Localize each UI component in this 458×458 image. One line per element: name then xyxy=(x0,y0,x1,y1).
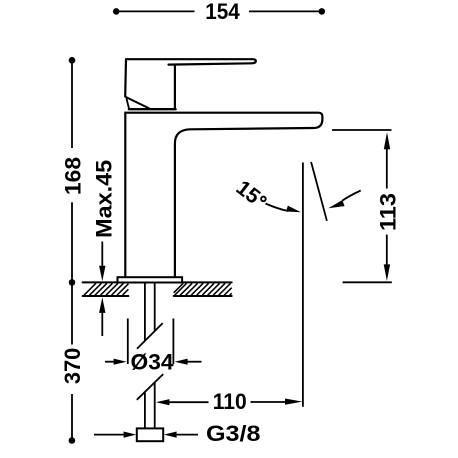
supply pipe lower right line xyxy=(154,382,156,428)
svg-text:Max.45: Max.45 xyxy=(92,160,117,238)
Max.45 upper leader line xyxy=(101,242,103,270)
dimension 370 bottom dot xyxy=(69,437,76,444)
handle column right edge xyxy=(174,65,176,108)
supply pipe upper right line xyxy=(154,282,156,330)
diameter 34 right arrow xyxy=(175,359,202,365)
dimension 110 right arrow xyxy=(251,399,303,405)
dimension 113 top extension line xyxy=(332,129,392,131)
15 degree right leader xyxy=(328,191,360,209)
Max.45 down arrowhead xyxy=(99,266,105,282)
handle left edge xyxy=(124,59,127,96)
water stream axis line xyxy=(302,163,304,407)
dimension 168 line xyxy=(71,60,73,282)
15 degree left leader xyxy=(266,204,302,213)
Max.45 lower leader line xyxy=(101,311,103,336)
svg-text:113: 113 xyxy=(375,193,400,231)
dimension 370 line xyxy=(71,286,73,441)
svg-text:Ø34: Ø34 xyxy=(131,349,175,374)
G3/8 fitting xyxy=(137,428,163,441)
dimension 113 bottom extension line xyxy=(343,281,392,283)
dimension 113 down arrowhead xyxy=(384,264,390,281)
counter hatch right xyxy=(174,283,232,295)
diameter 34 right extension line xyxy=(172,319,174,365)
Max.45 up arrowhead xyxy=(99,297,105,313)
counter bottom line right xyxy=(174,295,232,297)
svg-text:G3/8: G3/8 xyxy=(206,421,261,446)
svg-text:110: 110 xyxy=(213,389,247,414)
counter hatch left xyxy=(84,283,128,295)
dimension 168 top dot xyxy=(69,57,76,64)
G3/8 right arrow xyxy=(164,432,198,438)
dimension 113 up arrowhead xyxy=(384,132,390,149)
15 degree label degree ring xyxy=(261,197,266,202)
counter bottom line left xyxy=(83,295,129,297)
base flange xyxy=(118,277,183,282)
dimension 113 line lower xyxy=(386,235,388,266)
counter top line right xyxy=(182,281,231,283)
faucet body and spout outline xyxy=(125,113,322,277)
dimension 154 left dot xyxy=(113,8,120,15)
counter top line left xyxy=(83,281,118,283)
dimension 113 line upper xyxy=(386,148,388,189)
svg-text:154: 154 xyxy=(205,0,240,24)
svg-text:370: 370 xyxy=(60,348,85,385)
handle base bottom line xyxy=(129,108,176,110)
supply pipe upper left line xyxy=(144,282,146,340)
pipe break slash upper xyxy=(137,323,163,349)
pipe break slash lower xyxy=(137,374,163,400)
dimension 110 left arrow xyxy=(156,399,209,405)
diameter 34 left arrow xyxy=(105,359,127,365)
diameter 34 left extension line xyxy=(127,319,129,365)
dimension 154 right dot xyxy=(319,8,326,15)
handle inner wedge line xyxy=(127,99,130,109)
handle chamfer xyxy=(125,97,149,109)
handle lever xyxy=(126,59,256,64)
dimension 168 bottom dot xyxy=(69,279,76,286)
G3/8 left arrow xyxy=(94,432,136,438)
15 degree slanted line xyxy=(311,162,327,221)
svg-text:168: 168 xyxy=(60,157,85,195)
dimension 154 line xyxy=(117,10,321,12)
supply pipe lower left line xyxy=(144,392,146,428)
